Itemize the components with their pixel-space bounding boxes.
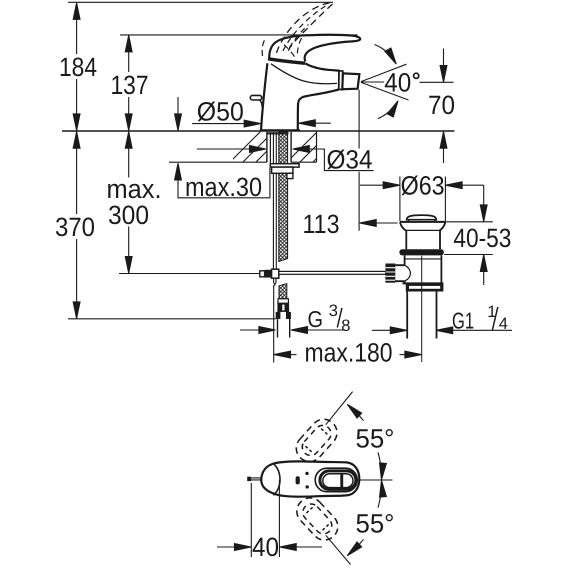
dimension 137 vertical line (128, 35, 130, 131)
raised lever dashed knuckle arc (262, 38, 301, 59)
waste rubber seal ring (399, 249, 443, 255)
svg-text:Ø50: Ø50 (197, 97, 244, 127)
dimension diameter 34 arrows in slab (197, 148, 250, 150)
countertop slab hatching left of hole (226, 128, 303, 166)
dimension max.180 left extension line (273, 285, 275, 363)
shank top collar band (268, 132, 289, 134)
waste upper body sides (406, 230, 440, 249)
top view faucet body outline (261, 461, 359, 496)
dimension 40-53 upper arrow segment (483, 185, 485, 221)
dimension 370 arrows (73, 132, 80, 149)
dimension 40-53 lower reference line (444, 254, 493, 256)
top view lever loop inner (323, 474, 353, 488)
horizontal linkage rod to waste (279, 271, 386, 274)
top view pull rod stub (247, 477, 262, 481)
dimension 137 label backing (108, 72, 150, 97)
rotation 55 degree lower arc near centerline with arrow (378, 489, 381, 508)
top view lever loop divider bar (340, 473, 343, 487)
mounting nut (272, 167, 293, 173)
faucet spout upper edge (305, 63, 339, 70)
dimension diameter 63 left arrow (360, 184, 384, 186)
hose crimp sleeve (277, 299, 289, 312)
svg-text:max.30: max.30 (185, 172, 262, 202)
raised lever dashed outline left edge (277, 3, 330, 53)
raised lever dashed inner strokes (283, 6, 327, 52)
dimension max.180 arrows (274, 351, 291, 358)
thread label G 1 1/4 (452, 303, 508, 334)
svg-text:55°: 55° (356, 423, 395, 453)
dimension 70 top reference line (420, 81, 454, 83)
hose thread pipe (278, 319, 290, 338)
spray cone axis line (361, 81, 384, 83)
rotation 55 degree upper arc near centerline with arrow (378, 452, 381, 471)
waste neck bottom line (406, 229, 440, 231)
waste flange top line (400, 221, 446, 223)
mounting washer (270, 164, 299, 167)
aerator (342, 73, 359, 89)
supply hose braided lower section (279, 284, 287, 299)
dimension 184 arrows (73, 3, 80, 20)
waste side port inner curve (405, 265, 411, 281)
countertop slab hatching right of hole (283, 128, 347, 166)
rotation horizontal centerline (357, 479, 393, 481)
rotation 55 degree lower arc far segment with arrow (353, 539, 364, 551)
top view lever recess (315, 468, 357, 492)
svg-text:Ø63: Ø63 (401, 170, 445, 200)
dimension 184 vertical line (76, 2, 78, 130)
faucet body crease line (271, 64, 337, 84)
supply hose braided upper section (279, 132, 288, 262)
faucet body right edge (298, 89, 339, 130)
waste compression collar (406, 284, 444, 292)
dimension max.300 arrows (125, 132, 132, 149)
waste side port (390, 265, 405, 281)
faucet body base line (260, 129, 300, 131)
dimension 40-53 lower arrow segment (483, 255, 485, 285)
waste lower body (405, 255, 442, 283)
pull rod lower tip (274, 278, 276, 285)
pull rod coupling black block (265, 270, 272, 278)
dimension 137 arrows (125, 35, 132, 52)
dimension 40 left extension line (250, 483, 252, 557)
mounting nut lower step (287, 173, 293, 178)
raised lever dashed outline right edge (288, 4, 333, 53)
waste knob base band (409, 220, 435, 222)
svg-text:184: 184 (59, 52, 97, 82)
dimension diameter 63 extension lines (400, 177, 446, 222)
svg-text:Ø34: Ø34 (327, 144, 373, 174)
svg-text:70: 70 (428, 90, 455, 120)
dimension max.30 reference line (169, 161, 233, 163)
waste body bottom line (403, 282, 444, 284)
svg-text:40: 40 (252, 532, 279, 562)
svg-text:113: 113 (303, 209, 340, 239)
svg-text:40-53: 40-53 (453, 223, 511, 253)
dimension G 3/8 left arrow (240, 329, 260, 331)
top view marking blob (296, 476, 300, 484)
top view cartridge dome arc (273, 463, 280, 495)
dimension diameter 50 leader line and arrows (192, 123, 245, 125)
dimension max.300 label backing (104, 178, 164, 227)
dimension 370 vertical line (76, 132, 78, 319)
dimension 113 arrow (360, 220, 377, 227)
dimension 40 arrows (217, 546, 235, 548)
dimension 184 top extension line (68, 1, 333, 3)
dimension max.30 lower arrow and leader to nut (178, 163, 270, 197)
dimension 40-53 upper reference line (445, 221, 492, 223)
faucet body left edge (261, 63, 267, 131)
pop-up pull rod knob (250, 95, 262, 107)
rotated lever dashed capsule upper (291, 414, 343, 467)
waste flange tapered neck (400, 222, 446, 230)
hose end nut G 3/8 (276, 312, 291, 319)
top view small dots (305, 472, 309, 489)
faucet cartridge seam (268, 59, 305, 64)
dimension G 1 1/4 right arrow with underline (436, 327, 453, 334)
dimension 70 lower arrow segment (443, 132, 445, 163)
spout axis vertical extension line (358, 90, 360, 231)
spray cone 40 degree lower arc with arrow (378, 105, 396, 119)
dimension max.300 vertical line (128, 132, 130, 273)
svg-text:max.180: max.180 (305, 337, 393, 367)
svg-text:40: 40 (384, 67, 411, 97)
countertop surface line (62, 130, 455, 132)
pull rod coupling left piece (260, 271, 265, 277)
waste lower body step line (405, 258, 442, 260)
dimension diameter 63 right arrow with bent leader (446, 182, 463, 189)
dimension diameter 34 leader to label (309, 149, 374, 171)
rotation 55 degree upper arc far segment with arrow (353, 409, 364, 421)
svg-text:8: 8 (341, 317, 350, 335)
spray cone upper line (361, 64, 407, 81)
svg-text:4: 4 (499, 315, 508, 333)
spray cone 40 degree upper arc with arrow (375, 45, 394, 61)
shank tube line (269, 132, 271, 163)
svg-text:300: 300 (108, 200, 149, 230)
svg-text:370: 370 (55, 212, 95, 242)
pop-up pull rod vertical lines (273, 132, 276, 269)
waste centerline (421, 256, 423, 362)
waste drain diameter 63 pop-up knob (407, 215, 437, 220)
mounting shank hole edges in slab (267, 132, 291, 163)
slab right edge (316, 132, 318, 163)
thread label G 3/8 (308, 302, 351, 335)
pull rod coupling clamp (272, 269, 279, 278)
dimension 184 label backing (57, 54, 98, 79)
rotation centerline lower 55 degrees (326, 535, 351, 564)
dimension 370 label backing (53, 214, 96, 239)
dimension max.300 bottom reference line (119, 273, 260, 275)
svg-text:G: G (308, 306, 324, 332)
dimension G 1 1/4 left arrow (372, 329, 391, 331)
dimension max.30 upper arrow segment (177, 97, 179, 130)
dimension 370 bottom reference line (68, 318, 276, 320)
faucet lever handle (269, 35, 360, 62)
spout end cap (339, 71, 343, 90)
svg-text:55°: 55° (356, 509, 395, 539)
rotation centerline upper 55 degrees (326, 392, 353, 425)
svg-text:G1: G1 (452, 308, 474, 334)
svg-text:137: 137 (111, 70, 149, 100)
dimension G 3/8 right arrow with underline (291, 327, 308, 334)
spray cone lower line (361, 82, 409, 100)
waste tailpipe (407, 292, 436, 339)
dimension 70 upper arrow segment (443, 49, 445, 83)
slab bottom edge (233, 161, 317, 163)
svg-text:3: 3 (329, 302, 338, 320)
dimension 40 right extension line (278, 480, 280, 557)
rotated lever dashed capsule lower (291, 493, 343, 546)
waste knurled knob (385, 264, 395, 283)
dimension 137 top extension line (120, 34, 358, 36)
top view lever loop outer (320, 471, 356, 490)
